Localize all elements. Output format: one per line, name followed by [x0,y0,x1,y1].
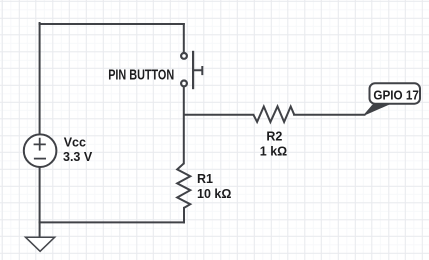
svg-text:1 kΩ: 1 kΩ [260,145,287,159]
callout GPIO 17 tail [364,104,389,115]
voltage source V1 circle [24,134,57,167]
wire R2 to GPIO tail [294,114,364,116]
callout GPIO 17 box [370,83,421,103]
wire button bottom to node A [183,87,185,163]
voltage source plus sign [34,138,46,151]
wire button top drop [183,24,185,53]
svg-text:R2: R2 [266,130,282,144]
pushbutton S1 bar [192,51,194,89]
wire bottom horizontal rail [40,221,184,223]
svg-text:R1: R1 [197,172,213,186]
node A junction to R1 [184,114,253,116]
svg-text:Vcc: Vcc [64,136,86,150]
pushbutton S1 terminal top [181,53,187,59]
svg-text:3.3 V: 3.3 V [63,150,93,164]
svg-text:PIN BUTTON: PIN BUTTON [108,67,174,84]
voltage source minus sign [34,158,46,160]
wire left vertical upper (Vcc top to circle) [39,23,41,134]
wire left vertical lower (circle to ground) [39,167,41,237]
pushbutton S1 actuator [193,66,202,75]
pushbutton S1 terminal bottom [181,81,187,87]
wire top horizontal [40,23,184,25]
ground [26,237,55,251]
resistor R2 [253,106,294,122]
svg-text:GPIO 17: GPIO 17 [373,87,419,102]
svg-text:10 kΩ: 10 kΩ [197,187,231,201]
resistor R1 [177,163,190,208]
wire R1 bottom to ground rail [183,208,185,223]
